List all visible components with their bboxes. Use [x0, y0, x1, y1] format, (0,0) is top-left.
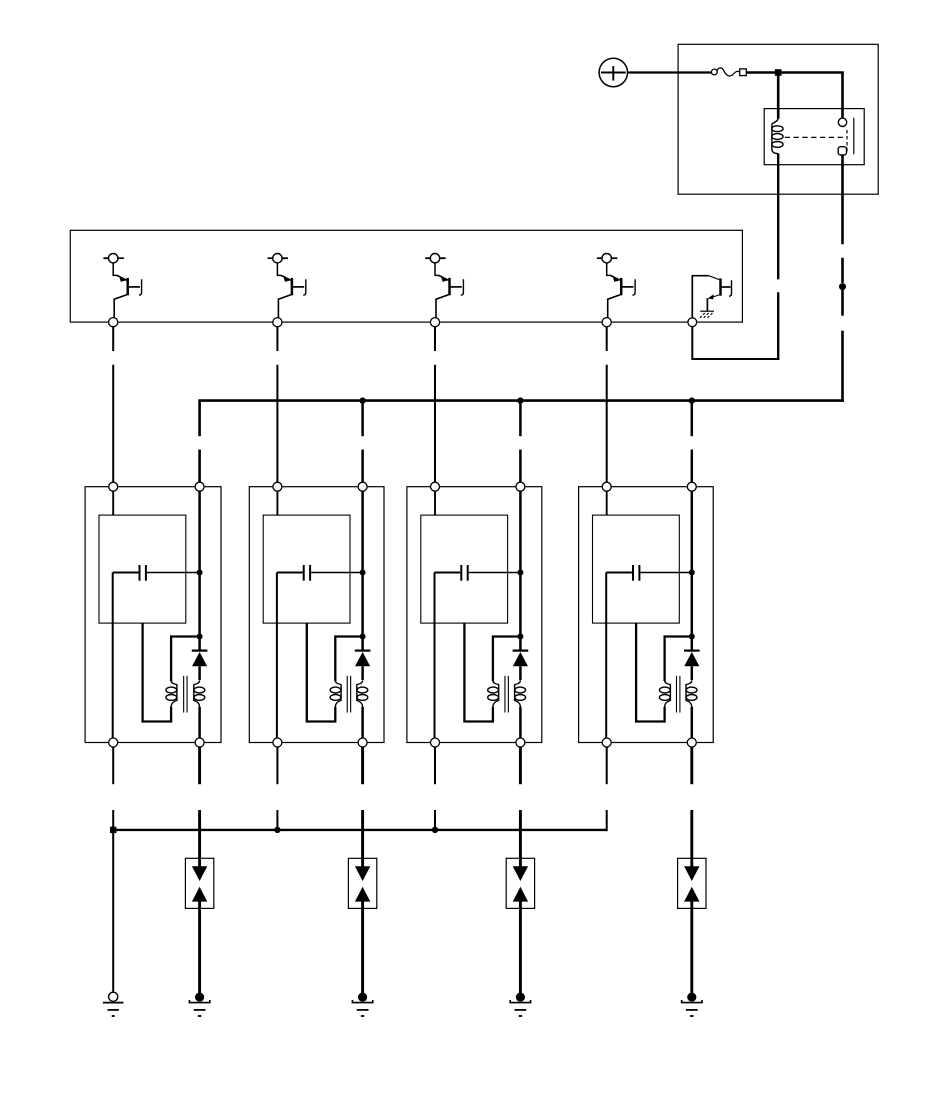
unit 4 junction capacitor/secondary [689, 570, 695, 576]
spark plug ground 2 [352, 993, 372, 1017]
wire fuse to junction to relay contact [746, 71, 843, 74]
noise suppressor / spark gap 3 [506, 858, 534, 908]
wire unit 1 ground-side down (with connector gap) [112, 747, 114, 831]
wire unit 4 secondary to noise suppressor (with connector gap) [690, 747, 693, 858]
unit 2 wire capacitor to bottom terminal [276, 573, 278, 739]
unit 3 diode [513, 651, 529, 667]
wire relay coil to ECU T5 (with connector gap) [692, 154, 779, 361]
wire ground bus to main ground [112, 830, 114, 992]
spark plug ground 4 [682, 993, 702, 1017]
unit 3 wire secondary to bottom terminal [519, 707, 522, 738]
unit 3 junction capacitor/secondary [517, 570, 523, 576]
unit 1 transformer core [184, 676, 187, 713]
wire ECU pin 2 to coil unit 2 (with connector gap) [276, 327, 278, 483]
unit 3 igniter inner box [421, 515, 508, 623]
unit 4 primary return wire [636, 623, 665, 721]
relay contact blade bar [853, 118, 855, 154]
wire unit 1 secondary to noise suppressor (with connector gap) [198, 747, 201, 858]
junction node at fuse output [775, 69, 782, 76]
wire unit 3 secondary to noise suppressor (with connector gap) [519, 747, 522, 858]
wire battery to fuse [628, 71, 713, 73]
unit 4 diode [684, 651, 700, 667]
unit 4 secondary feed wire (top terminal to diode) [691, 491, 694, 650]
main ground terminal [103, 992, 124, 1016]
relay contact dashed drop [846, 130, 848, 151]
unit 3 primary return wire [464, 623, 493, 721]
spark plug ground 1 [189, 993, 209, 1017]
unit 1 wire secondary to bottom terminal [198, 707, 201, 738]
unit 1 capacitor [113, 565, 200, 581]
noise suppressor / spark gap 1 [185, 858, 213, 908]
driver transistor Q4 [597, 254, 635, 318]
unit 4 junction link/secondary [689, 634, 695, 640]
unit 3 transformer core [505, 676, 508, 713]
wire ECU pin 4 to coil unit 4 (with connector gap) [606, 327, 608, 483]
wire unit 4 ground-side down (with connector gap) [606, 747, 608, 831]
junction node bus/unit 3 [517, 397, 523, 403]
wire relay contact down to distribution bus (with connector gaps) [841, 155, 844, 402]
unit 2 diode [355, 651, 371, 667]
unit 4 secondary winding [686, 680, 697, 707]
unit 3 primary winding [488, 680, 499, 707]
wire unit 2 secondary to noise suppressor (with connector gap) [361, 747, 364, 858]
unit 1 input pin stub [112, 491, 114, 515]
unit 4 terminal circles [602, 482, 696, 747]
relay moving contact (bottom) [838, 147, 846, 155]
driver transistor Q3 [425, 254, 463, 318]
noise suppressor / spark gap 2 [348, 858, 376, 908]
unit 3 secondary winding [515, 680, 526, 707]
unit 1 primary return wire [143, 623, 172, 721]
unit 2 transformer core [347, 676, 350, 713]
ground bus [113, 829, 607, 831]
ignition voltage bus from relay [200, 399, 844, 482]
ECU output pin 4 [602, 318, 611, 327]
unit 1 igniter inner box [99, 515, 186, 623]
internal ground of Q5 emitter [700, 311, 714, 318]
unit 4 transformer core [677, 676, 680, 713]
unit 1 diode [192, 651, 208, 667]
junction node bus/unit 2 [359, 397, 365, 403]
wire unit 2 ground-side down (with connector gap) [276, 747, 278, 831]
unit 3 secondary feed wire (top terminal to diode) [519, 491, 522, 650]
unit 4 primary winding [659, 680, 670, 707]
bus branch to coil unit 4 (with connector gap) [691, 401, 694, 483]
ignition coil unit 4 box [579, 487, 714, 743]
bus branch to coil unit 2 (with connector gap) [361, 401, 364, 483]
junction node ground bus left end [110, 827, 116, 833]
wire ECU pin 1 to coil unit 1 (with connector gap) [112, 327, 114, 483]
unit 1 secondary feed wire (top terminal to diode) [198, 491, 201, 650]
wire suppressor 3 to spark ground [519, 908, 522, 994]
unit 4 wire secondary to bottom terminal [691, 707, 694, 738]
unit 3 input pin stub [434, 491, 436, 515]
wire suppressor 2 to spark ground [361, 908, 364, 994]
driver transistor Q5 (relay driver) [692, 276, 731, 318]
driver transistor Q2 [268, 254, 306, 318]
unit 1 junction link/secondary [197, 634, 203, 640]
unit 4 wire primary-coil top link [665, 637, 692, 682]
unit 1 wire primary-coil top link [171, 637, 200, 682]
ignition coil unit 1 box [85, 487, 221, 743]
unit 2 input pin stub [276, 491, 278, 515]
junction node ground bus / unit 2 [274, 827, 280, 833]
unit 2 capacitor [277, 565, 363, 581]
fuse symbol [711, 68, 746, 76]
unit 3 terminal circles [431, 482, 525, 747]
wire suppressor 4 to spark ground [690, 908, 693, 994]
unit 4 capacitor [606, 565, 692, 581]
unit 1 terminal circles [109, 482, 204, 747]
unit 2 igniter inner box [263, 515, 350, 623]
unit 2 primary winding [330, 680, 341, 707]
main relay box [764, 109, 864, 165]
unit 3 junction link/secondary [517, 634, 523, 640]
relay coil [772, 117, 783, 154]
driver transistor Q1 [103, 254, 141, 318]
unit 2 primary return wire [307, 623, 336, 721]
unit 2 junction link/secondary [360, 634, 366, 640]
bus branch to coil unit 3 (with connector gap) [519, 401, 522, 483]
unit 2 junction capacitor/secondary [360, 570, 366, 576]
wire ECU pin 3 to coil unit 3 (with connector gap) [434, 327, 436, 483]
unit 4 input pin stub [606, 491, 608, 515]
junction node bus/unit 4 [689, 397, 695, 403]
ECU output pin 2 [273, 318, 282, 327]
wire down to relay contact [841, 73, 844, 120]
relay fixed contact (top) [838, 118, 846, 126]
unit 4 wire capacitor to bottom terminal [605, 573, 607, 739]
unit 1 secondary winding [194, 680, 205, 707]
wire junction down to relay coil [777, 73, 780, 119]
junction node ground bus / unit 3 [432, 827, 438, 833]
unit 3 wire primary-coil top link [493, 637, 521, 682]
wire suppressor 1 to spark ground [198, 908, 201, 994]
unit 3 capacitor [435, 565, 521, 581]
spark plug ground 3 [510, 993, 530, 1017]
connector node on relay contact wire [839, 283, 846, 290]
battery positive terminal [599, 58, 627, 86]
unit 3 wire capacitor to bottom terminal [434, 573, 436, 739]
ECU output pin 5 (relay control) [688, 318, 697, 327]
noise suppressor / spark gap 4 [678, 858, 706, 908]
unit 1 wire capacitor to bottom terminal [112, 573, 114, 739]
ECM/ignition control module box [70, 230, 742, 322]
unit 4 igniter inner box [593, 515, 680, 623]
unit 2 terminal circles [273, 482, 367, 747]
unit 2 wire secondary to bottom terminal [361, 707, 364, 738]
unit 2 secondary feed wire (top terminal to diode) [361, 491, 364, 650]
ignition coil unit 2 box [249, 487, 384, 743]
ECU output pin 3 [430, 318, 439, 327]
relay armature dashed link [785, 136, 847, 138]
unit 1 junction capacitor/secondary [197, 570, 203, 576]
fuse box (under-hood fuse/relay box outline) [678, 44, 878, 194]
ECU output pin 1 [109, 318, 118, 327]
unit 1 primary winding [166, 680, 177, 707]
unit 2 wire primary-coil top link [335, 637, 362, 682]
wire unit 3 ground-side down (with connector gap) [434, 747, 436, 831]
unit 2 secondary winding [357, 680, 368, 707]
ignition coil unit 3 box [407, 487, 542, 743]
